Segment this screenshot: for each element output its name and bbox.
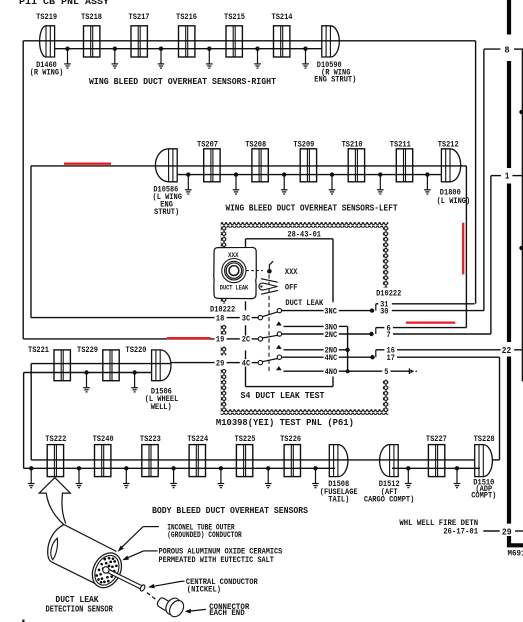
wire: row3 lower rail bbox=[24, 372, 152, 374]
hatch border bbox=[221, 299, 227, 304]
switch pole 2C bbox=[227, 338, 240, 340]
central conductor rod bbox=[105, 568, 143, 589]
ground bbox=[405, 468, 412, 487]
ground bbox=[112, 49, 119, 68]
svg-text:WING BLEED DUCT OVERHEAT SENSO: WING BLEED DUCT OVERHEAT SENSORS-LEFT bbox=[226, 202, 398, 213]
bus corner to M69 bbox=[509, 536, 523, 545]
junction bbox=[455, 466, 459, 470]
pin7 vertical to bus 1 bbox=[490, 176, 492, 334]
wire: row1 upper rail bbox=[23, 40, 339, 42]
svg-text:(R WING): (R WING) bbox=[30, 67, 64, 77]
ground bbox=[254, 49, 261, 68]
svg-text:TS227: TS227 bbox=[426, 434, 447, 444]
svg-text:TS219: TS219 bbox=[36, 12, 57, 22]
ground bbox=[454, 468, 461, 487]
wire 4NC bbox=[282, 356, 324, 358]
ground bbox=[28, 468, 35, 487]
junction bbox=[406, 466, 410, 470]
svg-text:3C: 3C bbox=[242, 313, 250, 323]
thermal switch TS214 bbox=[274, 26, 290, 57]
wire: row1 lower rail bbox=[55, 48, 322, 50]
wire 2NC bbox=[282, 333, 324, 335]
junction bbox=[132, 370, 136, 374]
thermal switch TS226 bbox=[284, 445, 300, 477]
wire: row2 lower rail bbox=[177, 174, 441, 176]
svg-text:ENG STRUT): ENG STRUT) bbox=[314, 75, 356, 85]
svg-text:TS224: TS224 bbox=[187, 434, 208, 444]
page edge wire bbox=[521, 49, 523, 381]
svg-text:TAIL): TAIL) bbox=[328, 494, 349, 504]
svg-text:(L WING): (L WING) bbox=[437, 196, 471, 206]
thermal switch TS222 bbox=[47, 445, 63, 477]
svg-text:TS221: TS221 bbox=[28, 345, 49, 355]
svg-text:TS212: TS212 bbox=[438, 140, 459, 150]
thermal switch TS211 bbox=[396, 149, 412, 182]
wire 3NC bbox=[282, 310, 324, 312]
svg-text:DUCT LEAK: DUCT LEAK bbox=[220, 284, 249, 291]
svg-text:7: 7 bbox=[387, 330, 391, 340]
pin 5 stub bbox=[348, 370, 383, 372]
ground bbox=[170, 468, 177, 487]
junction bbox=[29, 466, 33, 470]
knob pointer dashes bbox=[246, 270, 262, 272]
svg-text:19: 19 bbox=[216, 335, 224, 345]
dashed link to connector bbox=[147, 593, 158, 601]
connector D1506 / TS220 bbox=[152, 350, 171, 381]
svg-text:TS216: TS216 bbox=[176, 12, 197, 22]
hatch border bbox=[383, 228, 388, 288]
inner switch box S4 bbox=[246, 238, 334, 240]
ground bbox=[281, 175, 288, 194]
bus tick 8 bbox=[484, 48, 501, 50]
junction bbox=[65, 47, 69, 51]
junction bbox=[330, 172, 334, 176]
thermal switch TS223 bbox=[142, 445, 158, 477]
pin30 vertical to bus 8 bbox=[483, 49, 485, 311]
hatch border bbox=[383, 380, 388, 410]
svg-text:(NICKEL): (NICKEL) bbox=[187, 585, 221, 595]
ground bbox=[265, 468, 272, 487]
svg-text:TS208: TS208 bbox=[245, 140, 266, 150]
svg-text:(GROUNDED) CONDUCTOR: (GROUNDED) CONDUCTOR bbox=[167, 530, 242, 540]
junction bbox=[207, 47, 211, 51]
position pointer bbox=[268, 265, 270, 269]
ground bbox=[83, 373, 90, 392]
svg-text:5: 5 bbox=[384, 367, 388, 377]
red highlight pin19 wire bbox=[167, 337, 211, 339]
svg-text:TS229: TS229 bbox=[77, 345, 98, 355]
junction NO tie bbox=[345, 348, 349, 352]
ground bbox=[377, 175, 384, 194]
thermal switch TS229 bbox=[103, 350, 119, 381]
svg-text:TS223: TS223 bbox=[140, 434, 161, 444]
wire: row1 left vertical to pin19 bbox=[22, 41, 24, 339]
NO tie vertical bbox=[347, 326, 349, 371]
connector D10590 bbox=[322, 26, 340, 57]
junction bbox=[378, 172, 382, 176]
wire D1800 exit to pin6 bbox=[461, 165, 467, 167]
connector D10586 bbox=[155, 149, 177, 182]
stray mark bottom left bbox=[22, 620, 24, 622]
ground bbox=[302, 49, 309, 68]
svg-text:4C: 4C bbox=[242, 358, 250, 368]
junction bbox=[255, 47, 259, 51]
thermal switch TS216 bbox=[179, 26, 195, 57]
svg-text:XXX: XXX bbox=[285, 267, 298, 277]
junction 4NO bbox=[346, 369, 350, 373]
wire: row3 upper-left vertical down to row4 upper rail bbox=[30, 364, 32, 460]
svg-text:3NC: 3NC bbox=[324, 307, 337, 317]
thermal switch TS221 bbox=[54, 350, 70, 381]
junction bbox=[171, 466, 175, 470]
wire pin29 into panel (from D1506) bbox=[171, 362, 215, 364]
svg-text:17: 17 bbox=[387, 353, 395, 363]
junction 17 bbox=[370, 355, 374, 359]
ceramic pores bbox=[103, 558, 106, 561]
svg-text:2C: 2C bbox=[242, 335, 250, 345]
svg-text:TS217: TS217 bbox=[129, 12, 150, 22]
wire: row2 upper rail bbox=[155, 165, 460, 167]
wire: row3 upper rail / 29 feed bbox=[31, 363, 171, 365]
ground bbox=[218, 468, 225, 487]
svg-text:TS210: TS210 bbox=[342, 140, 363, 150]
position wedge (pennant) bbox=[259, 283, 277, 290]
svg-text:TS226: TS226 bbox=[280, 434, 301, 444]
svg-text:M10398(YEI) TEST PNL (P61): M10398(YEI) TEST PNL (P61) bbox=[216, 417, 354, 428]
junction bbox=[234, 172, 238, 176]
ground bbox=[329, 175, 336, 194]
ground bbox=[158, 49, 165, 68]
wire: row2 left vertical to pin18 bbox=[30, 166, 32, 318]
svg-text:TS228: TS228 bbox=[474, 434, 495, 444]
wire D10590 exit to pin31 bbox=[339, 40, 475, 42]
svg-text:22: 22 bbox=[502, 345, 511, 356]
wire: row2 left feed bbox=[31, 165, 155, 167]
svg-text:TS222: TS222 bbox=[45, 434, 66, 444]
ground bbox=[123, 468, 130, 487]
svg-text:26-17-01: 26-17-01 bbox=[443, 527, 478, 537]
thermal switch TS208 bbox=[252, 149, 268, 182]
junction bbox=[313, 466, 317, 470]
tube end lens bbox=[51, 538, 58, 560]
svg-text:WING BLEED DUCT OVERHEAT SENSO: WING BLEED DUCT OVERHEAT SENSORS-RIGHT bbox=[89, 76, 276, 87]
wire pin19 into panel bbox=[23, 338, 214, 340]
sensor tube body bbox=[48, 525, 64, 563]
junction bbox=[219, 466, 223, 470]
connector D1510 / TS228 bbox=[475, 445, 493, 477]
red highlight D1800 drop bbox=[462, 223, 464, 275]
junction bbox=[282, 172, 286, 176]
svg-text:TS211: TS211 bbox=[390, 140, 411, 150]
junction bbox=[84, 370, 88, 374]
svg-text:8: 8 bbox=[504, 45, 510, 56]
junction edge A bbox=[519, 110, 523, 115]
bus tick 1 bbox=[491, 175, 501, 177]
red highlight pin6 wire bbox=[406, 321, 455, 323]
hatch border bbox=[221, 325, 227, 335]
svg-text:TS215: TS215 bbox=[224, 12, 245, 22]
wire 2NO bbox=[284, 349, 324, 351]
thermal switch TS224 bbox=[189, 445, 205, 477]
ground bus (thick dashed) bbox=[507, 0, 511, 35]
svg-text:30: 30 bbox=[380, 307, 388, 317]
junction bbox=[159, 47, 163, 51]
switch pole 4C bbox=[227, 362, 240, 364]
thermal switch TS218 bbox=[84, 26, 100, 57]
connector D1460 bbox=[40, 26, 55, 57]
connector D1512 bbox=[380, 445, 399, 477]
thermal switch TS217 bbox=[131, 26, 147, 57]
thermal switch TS207 bbox=[204, 149, 220, 182]
junction bbox=[77, 466, 81, 470]
junction bbox=[124, 466, 128, 470]
svg-text:4NO: 4NO bbox=[325, 367, 338, 377]
connector D1800 / TS212 bbox=[441, 149, 460, 182]
svg-text:DETECTION SENSOR: DETECTION SENSOR bbox=[46, 605, 114, 615]
ground bbox=[185, 175, 192, 194]
hatch border bbox=[221, 409, 389, 415]
hatch border bbox=[221, 346, 227, 355]
wire 3NO bbox=[284, 325, 324, 327]
thermal switch TS225 bbox=[236, 445, 252, 477]
switch pole 3C bbox=[227, 317, 240, 319]
svg-text:EACH END: EACH END bbox=[209, 609, 245, 618]
svg-text:TS225: TS225 bbox=[235, 434, 256, 444]
svg-text:PERMEATED WITH EUTECTIC SALT: PERMEATED WITH EUTECTIC SALT bbox=[159, 556, 274, 565]
svg-text:TS209: TS209 bbox=[293, 140, 314, 150]
junction 7 bbox=[369, 332, 373, 336]
wire: row3 lower-left vertical down to row4 lower rail bbox=[23, 373, 25, 469]
svg-text:P11 CB PNL ASSY: P11 CB PNL ASSY bbox=[19, 0, 109, 7]
svg-text:S4 DUCT LEAK TEST: S4 DUCT LEAK TEST bbox=[241, 391, 326, 401]
junction bbox=[425, 172, 429, 176]
junction bbox=[186, 172, 190, 176]
connector D1508 bbox=[329, 445, 348, 477]
thermal switch TS209 bbox=[300, 149, 316, 182]
ground bbox=[233, 175, 240, 194]
svg-text:29: 29 bbox=[216, 358, 224, 368]
thermal switch TS215 bbox=[226, 26, 242, 57]
wire: row4 lower rail (left part) bbox=[24, 467, 335, 469]
svg-text:TS218: TS218 bbox=[81, 12, 102, 22]
svg-text:TS220: TS220 bbox=[126, 345, 147, 355]
ground bbox=[424, 175, 431, 194]
knob circles bbox=[222, 259, 246, 283]
svg-text:CARGO COMPT): CARGO COMPT) bbox=[364, 494, 414, 504]
thermal switch TS210 bbox=[348, 149, 364, 182]
connector plug bbox=[156, 597, 172, 612]
svg-text:1: 1 bbox=[505, 171, 510, 182]
svg-text:18: 18 bbox=[216, 313, 224, 323]
junction bbox=[113, 47, 117, 51]
svg-text:29: 29 bbox=[502, 526, 512, 537]
svg-text:DUCT LEAK: DUCT LEAK bbox=[55, 595, 99, 605]
svg-text:STRUT): STRUT) bbox=[154, 207, 179, 217]
ground bbox=[206, 49, 213, 68]
thermal switch TS227 bbox=[428, 445, 444, 477]
ground bbox=[312, 468, 319, 487]
svg-text:XXX: XXX bbox=[228, 252, 239, 259]
svg-text:TS214: TS214 bbox=[272, 12, 293, 22]
svg-text:COMPT): COMPT) bbox=[471, 491, 496, 501]
svg-text:TS207: TS207 bbox=[197, 140, 218, 150]
svg-text:2NO: 2NO bbox=[325, 346, 338, 356]
wire: row4 lower rail (right part) bbox=[392, 467, 480, 469]
hatch border bbox=[221, 228, 227, 248]
hatch border bbox=[221, 222, 389, 228]
junction 30 bbox=[370, 308, 374, 312]
svg-text:DUCT LEAK: DUCT LEAK bbox=[285, 298, 323, 308]
ground bbox=[76, 468, 83, 487]
ground bbox=[131, 373, 138, 392]
svg-text:WELL): WELL) bbox=[151, 402, 172, 412]
svg-text:3NO: 3NO bbox=[325, 322, 338, 332]
pointer arrow to TS222 bbox=[39, 478, 64, 525]
svg-text:BODY BLEED DUCT OVERHEAT SENSO: BODY BLEED DUCT OVERHEAT SENSORS bbox=[152, 505, 308, 516]
pin17 corner down to D1510 wire bbox=[499, 357, 501, 460]
bus tick 29 bbox=[483, 530, 499, 532]
wire 4NO bbox=[284, 370, 324, 372]
ground bbox=[64, 49, 71, 68]
svg-text:OFF: OFF bbox=[285, 282, 298, 292]
wire D1510 exit bbox=[492, 459, 499, 461]
wire: row4 upper rail bbox=[31, 459, 475, 461]
svg-text:D10222: D10222 bbox=[376, 288, 401, 298]
svg-text:TS240: TS240 bbox=[93, 434, 114, 444]
junction bbox=[266, 466, 270, 470]
red highlight row2 feed bbox=[64, 163, 111, 165]
svg-text:M691: M691 bbox=[508, 548, 523, 558]
thermal switch TS240 bbox=[95, 445, 111, 477]
sensor face (ceramics) bbox=[87, 548, 128, 593]
switch mechanical link (dashed) bbox=[268, 275, 270, 374]
wire pin18 into panel bbox=[31, 317, 215, 319]
hatch border bbox=[221, 369, 227, 409]
rotary switch S4 front view bbox=[214, 247, 256, 298]
junction edge B bbox=[519, 246, 523, 251]
junction bbox=[303, 47, 307, 51]
